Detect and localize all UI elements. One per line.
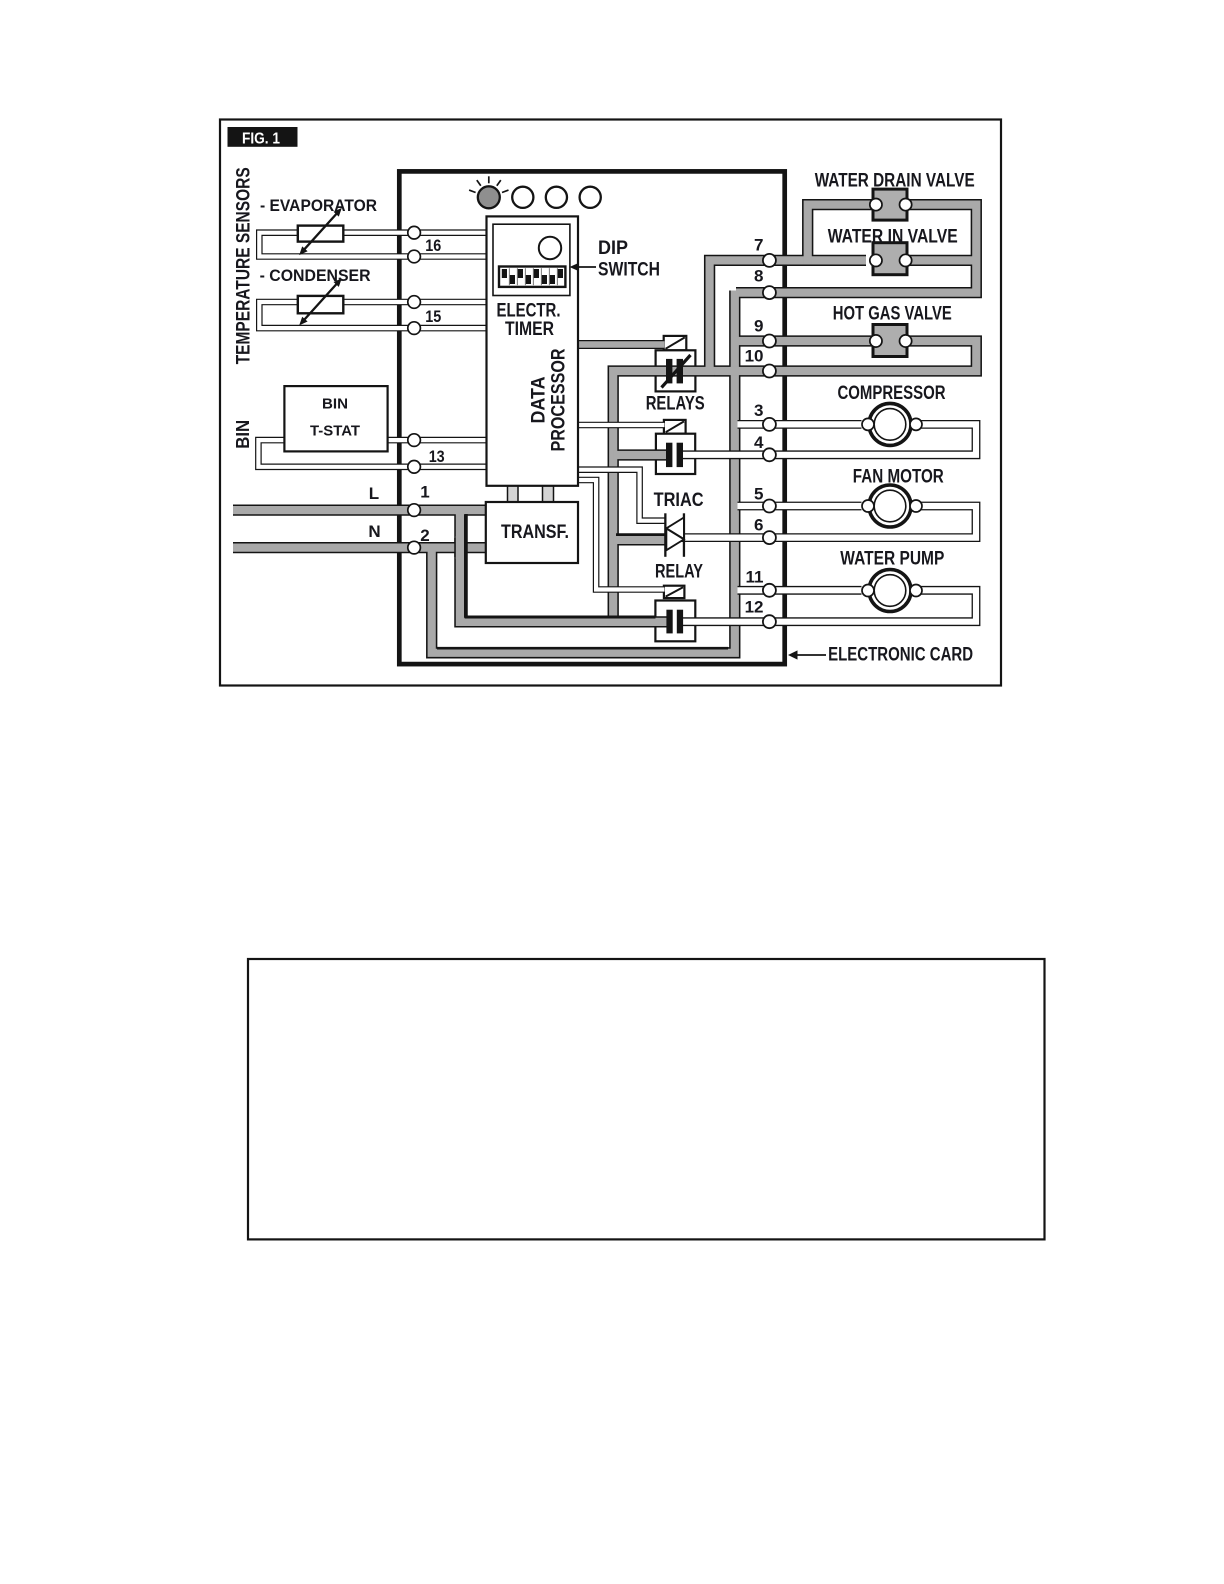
triac triangle lower [666, 529, 684, 551]
wire relay K2 feed [613, 449, 669, 460]
wire L drop to relay K3 [460, 513, 670, 622]
wire 11 water pump feed [738, 586, 862, 595]
terminal 15a [408, 296, 421, 309]
svg-text:- CONDENSER: - CONDENSER [260, 266, 371, 285]
svg-text:3: 3 [754, 401, 763, 420]
evaporator sensor body [298, 226, 344, 242]
water drain valve terminals [870, 199, 882, 211]
svg-text:WATER PUMP: WATER PUMP [840, 549, 944, 570]
condenser sensor arrow [303, 282, 338, 321]
svg-text:TEMPERATURE SENSORS: TEMPERATURE SENSORS [233, 167, 255, 364]
figure frame [220, 120, 1001, 686]
relay K2 coil box [664, 420, 686, 434]
svg-text:10: 10 [745, 347, 764, 366]
svg-text:BIN: BIN [322, 397, 348, 413]
wire 4 compressor return loop [680, 424, 976, 454]
electronic card outline [399, 171, 784, 664]
terminal 2 [408, 541, 421, 554]
svg-text:DIP: DIP [598, 238, 628, 259]
electronic timer module box [493, 224, 570, 295]
relay K3 contact bars [666, 610, 672, 634]
dip switch block [499, 267, 565, 287]
terminal 16b [408, 250, 421, 263]
relay K1 coil box [664, 336, 687, 350]
L drop crossing over wire N [454, 538, 465, 557]
wire relay K3 coil drive [578, 480, 665, 590]
terminal 4 [763, 448, 776, 461]
wire 15 sensor lead b [259, 302, 487, 328]
svg-text:9: 9 [754, 317, 763, 336]
svg-text:WATER DRAIN VALVE: WATER DRAIN VALVE [815, 171, 975, 192]
svg-text:12: 12 [745, 597, 764, 616]
relay K1 contact bars [666, 359, 672, 384]
LED D1 lit [478, 186, 500, 208]
terminal 9 [763, 335, 776, 348]
wire L input [233, 504, 487, 515]
wire 9 hot gas feed [736, 335, 872, 346]
relay K1 strike line [662, 355, 691, 388]
svg-text:1: 1 [420, 482, 429, 501]
water drain valve body [873, 189, 907, 220]
notes box [248, 959, 1045, 1239]
gray wire fill overlays [233, 506, 487, 514]
wire 5 fan motor feed [738, 502, 862, 511]
wire relay K2 coil drive [578, 422, 665, 429]
transformer TRANSF. box [486, 502, 578, 563]
svg-text:4: 4 [754, 433, 764, 452]
wire N drop, bottom run and N bus riser [432, 291, 735, 653]
svg-text:5: 5 [754, 484, 763, 503]
svg-text:BIN: BIN [233, 420, 253, 449]
terminal 11 [763, 584, 776, 597]
transformer connection stub 1 [508, 484, 519, 504]
terminal 13b [408, 461, 421, 474]
relay K1 contact box [656, 350, 696, 391]
svg-text:N: N [368, 522, 380, 541]
svg-text:FIG. 1: FIG. 1 [242, 131, 280, 148]
compressor motor symbol [869, 403, 911, 445]
condenser sensor body [298, 296, 344, 313]
wire 13 bin t-stat lead b [258, 440, 487, 467]
svg-text:TRIAC: TRIAC [654, 489, 704, 511]
relay K1 coil diagonal [666, 337, 685, 348]
terminal 7 [763, 254, 776, 267]
svg-text:TRANSF.: TRANSF. [501, 522, 569, 543]
svg-text:RELAY: RELAY [655, 561, 703, 583]
svg-text:TIMER: TIMER [505, 318, 554, 340]
triac feed companion black wire [616, 533, 665, 536]
svg-text:L: L [369, 484, 379, 503]
terminal 13a [408, 434, 421, 447]
relay K2 coil diagonal [666, 421, 684, 432]
svg-text:11: 11 [746, 568, 764, 587]
svg-text:FAN MOTOR: FAN MOTOR [853, 467, 944, 488]
timer circle [539, 237, 561, 259]
wire drain valve feed riser [808, 205, 872, 264]
svg-text:WATER IN VALVE: WATER IN VALVE [828, 226, 958, 247]
electronic card pointer arrow [796, 654, 826, 656]
svg-text:15: 15 [425, 307, 441, 326]
hot gas valve body [873, 325, 907, 357]
LED D4 [580, 187, 601, 208]
relay K3 coil box [664, 586, 685, 598]
triac triangle upper [666, 518, 684, 540]
L drop companion black wire [466, 514, 655, 617]
wire triac gate drive [578, 470, 665, 521]
svg-text:PROCESSOR: PROCESSOR [548, 349, 570, 452]
svg-text:DATA: DATA [528, 377, 550, 424]
terminal 1 [408, 504, 421, 517]
terminal 12 [763, 615, 776, 628]
svg-text:2: 2 [420, 526, 429, 545]
terminal 15b [408, 322, 421, 335]
relay K3 coil diagonal [666, 587, 683, 596]
svg-text:- EVAPORATOR: - EVAPORATOR [260, 196, 377, 215]
terminal 8 [763, 286, 776, 299]
wire hot gas return, row 10 and L distribution bus [613, 341, 976, 621]
wire 16 sensor lead b [259, 233, 487, 257]
transformer connection stub 2 [543, 484, 554, 504]
svg-text:SWITCH: SWITCH [598, 259, 660, 280]
triac right bar [683, 513, 685, 557]
relay K3 contact box [655, 601, 695, 642]
wire triac feed [613, 534, 665, 545]
svg-text:T-STAT: T-STAT [310, 423, 360, 439]
terminal 16a [408, 226, 421, 239]
water in valve body [873, 243, 907, 275]
svg-text:HOT GAS VALVE: HOT GAS VALVE [833, 304, 952, 325]
LED D2 [512, 187, 533, 208]
bin thermostat box [284, 386, 387, 451]
svg-text:COMPRESSOR: COMPRESSOR [838, 383, 946, 404]
svg-text:13: 13 [429, 447, 445, 466]
wire 7 with riser V1 [710, 260, 866, 371]
bottom run top outline [437, 647, 728, 650]
relay K2 contact bars [666, 443, 672, 467]
triac left bar [664, 513, 666, 557]
svg-text:RELAYS: RELAYS [646, 394, 705, 415]
data processor / timer box U1 [487, 216, 579, 485]
wire drain valve return to row 8 [736, 205, 976, 293]
terminal 6 [763, 531, 776, 544]
FIG. 1 label box [228, 127, 298, 147]
wire water in valve return [910, 255, 975, 266]
wire 16 sensor lead a [343, 229, 488, 236]
evaporator sensor arrow [303, 212, 338, 251]
svg-text:7: 7 [754, 236, 763, 255]
wire 12 water pump return loop [681, 590, 976, 621]
svg-text:6: 6 [754, 516, 763, 535]
wire 6 fan motor return loop [681, 506, 976, 538]
LED D3 [546, 187, 567, 208]
terminal 10 [763, 365, 776, 378]
wire 15 sensor lead a [343, 299, 488, 306]
svg-text:16: 16 [425, 236, 441, 255]
hot gas valve terminals [870, 335, 882, 347]
terminal 3 [763, 418, 776, 431]
wire N input [233, 542, 487, 553]
wire 3 compressor feed [738, 420, 862, 429]
fan motor symbol [869, 485, 911, 527]
water in valve terminals [870, 254, 882, 266]
wire relay K1 coil feed [578, 340, 665, 349]
dip switch pointer arrow [578, 266, 596, 268]
svg-text:8: 8 [754, 266, 763, 285]
svg-text:ELECTRONIC CARD: ELECTRONIC CARD [828, 645, 973, 666]
terminal 5 [763, 500, 776, 513]
water pump motor symbol [869, 570, 911, 612]
wire 13 bin t-stat lead a [387, 437, 488, 444]
relay K2 contact box [656, 434, 695, 474]
